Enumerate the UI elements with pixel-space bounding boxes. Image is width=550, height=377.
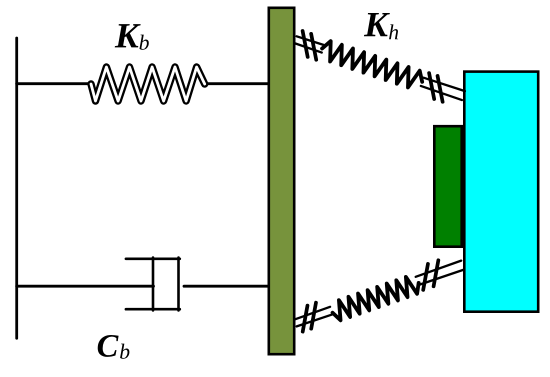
top spring lower lead line (block end) (421, 86, 462, 100)
damper Cb cylinder top (126, 257, 180, 260)
bottom spring upper lead line (bar end) (294, 307, 330, 320)
wire: bottom rod left segment (17, 285, 154, 288)
olive bar (middle mass) (269, 8, 294, 354)
wire: bottom rod right segment (184, 285, 268, 288)
top spring upper lead line (bar end) (297, 36, 325, 45)
label Cb letter C (98, 335, 119, 357)
wire: top rod left segment (17, 82, 92, 85)
bottom spring lower lead line (block end) (419, 269, 465, 285)
top spring upper lead line (block end) (424, 77, 465, 91)
label Cb subscript b (120, 344, 129, 359)
spring Kb (zigzag, black outline with white core) (91, 67, 205, 101)
bottom spring upper lead line (block end) (416, 261, 462, 277)
damper Cb cylinder bottom (126, 308, 180, 311)
cyan block (right mass) (464, 72, 538, 312)
green block (434, 126, 461, 247)
top spring hatch tick 4 (block end) (430, 76, 450, 102)
damper Cb cylinder right wall (177, 258, 180, 311)
label Kb subscript b (139, 35, 148, 50)
bottom spring coil zigzag (329, 274, 421, 322)
bottom spring lower lead line (bar end) (297, 314, 333, 327)
label Kb letter K (115, 24, 141, 47)
bottom spring hatch tick 2 (bar end) (304, 303, 324, 329)
top spring hatch tick 1 (bar end) (295, 31, 315, 57)
spring Kh bottom diagonal (291, 253, 466, 334)
bottom spring hatch tick 4 (block end) (426, 260, 446, 286)
wire: top rod right segment (205, 82, 268, 85)
top spring lower lead line (bar end) (294, 43, 322, 52)
spring Kh top diagonal (292, 30, 467, 108)
label Kh letter K (364, 13, 390, 36)
label Kh subscript h (389, 24, 398, 39)
wall (left vertical line) (15, 38, 18, 338)
top spring coil zigzag (319, 39, 425, 91)
bottom spring hatch tick 3 (block end) (416, 264, 436, 290)
top spring hatch tick 2 (bar end) (304, 34, 324, 60)
top spring hatch tick 3 (block end) (422, 73, 442, 99)
bottom spring hatch tick 1 (bar end) (295, 306, 315, 332)
damper Cb piston plate (152, 258, 155, 311)
